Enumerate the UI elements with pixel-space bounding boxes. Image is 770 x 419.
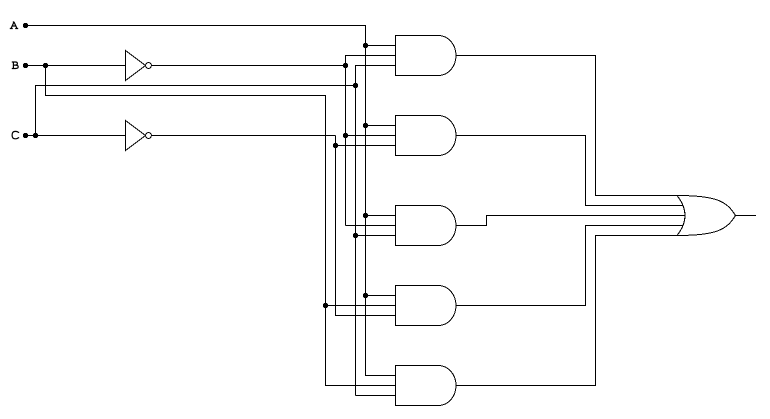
label B — [12, 62, 18, 69]
wire B' bus tap to AND2 input2 — [346, 135, 396, 137]
label A — [10, 22, 18, 29]
wire C' bus and AND4 input3 — [336, 136, 396, 316]
wire AND1 output to OR input1 — [456, 56, 677, 196]
wire C input to inverter U2 — [26, 135, 126, 137]
junction B split — [43, 63, 48, 68]
wire C bus tap to AND3 input3 — [356, 235, 396, 237]
terminal dot A — [23, 23, 28, 28]
wire A bus tap to AND4 input1 — [366, 295, 396, 297]
wire AND2 output to OR input2 — [456, 136, 683, 206]
wire A: input A to bus and gate 5 input 1 — [26, 26, 396, 376]
junction C-AND3 — [353, 233, 358, 238]
junction Bp-NOT — [343, 63, 348, 68]
wire C feed: junction up, across to C bus — [36, 86, 356, 136]
wire B' bus and AND1 input2 — [346, 56, 396, 226]
wire B feed: junction down, across, B bus down to AND5 input2 — [46, 66, 396, 386]
and-gate G2 — [396, 116, 457, 156]
wire A bus tap to AND2 input1 — [366, 125, 396, 127]
junction A-AND2 — [363, 123, 368, 128]
wire B' bus to AND3 input2 — [346, 225, 396, 227]
junction C split — [33, 133, 38, 138]
or-gate G6 — [677, 196, 685, 236]
terminal dot C — [23, 133, 28, 138]
and-gate G1 — [396, 36, 457, 76]
wire C bus to AND5 input3 — [356, 395, 396, 397]
wire NOT-C output — [151, 135, 335, 137]
wire AND3 output to OR input3 — [456, 216, 685, 226]
wire C bus and AND1 input3 — [356, 66, 396, 396]
junction A-AND1 — [363, 43, 368, 48]
and-gate G4 — [396, 286, 456, 326]
wire AND4 output to OR input4 — [456, 226, 683, 306]
wire B bus tap to AND4 input2 — [326, 305, 396, 307]
and-gate G3 — [396, 206, 457, 246]
junction Cp-AND2 — [333, 143, 338, 148]
and-gate G5 — [396, 366, 457, 406]
wire B input to inverter U1 — [26, 65, 126, 67]
junction A-AND4 — [363, 293, 368, 298]
wire AND5 output to OR input5 — [456, 236, 677, 386]
wire A bus tap to AND3 input1 — [366, 215, 396, 217]
junction B-AND4 — [323, 303, 328, 308]
wire A bus tap to AND1 input1 — [366, 45, 396, 47]
terminal dot B — [23, 63, 28, 68]
junction C-feed — [353, 83, 358, 88]
wire C' bus tap to AND2 input3 — [336, 145, 396, 147]
inverter U1 (NOT B) — [126, 51, 146, 81]
wire OR output — [736, 215, 757, 217]
label C — [12, 131, 19, 138]
junction A-AND3 — [363, 213, 368, 218]
junction Bp-AND2 — [343, 133, 348, 138]
wire NOT-B output to B' bus — [151, 65, 345, 67]
inverter U2 (NOT C) — [126, 121, 146, 151]
